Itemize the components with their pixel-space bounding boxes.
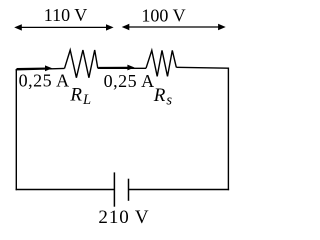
dimension arrow 110 V	[14, 24, 113, 30]
svg-text:210 V: 210 V	[98, 207, 149, 228]
wire top-left segment	[16, 68, 65, 69]
svg-text:100 V: 100 V	[141, 6, 185, 26]
resistor R_L	[65, 50, 98, 78]
svg-text:0,25 A: 0,25 A	[104, 71, 155, 91]
svg-text:0,25 A: 0,25 A	[19, 71, 70, 91]
current arrow I1	[17, 65, 53, 71]
svg-text:110 V: 110 V	[44, 5, 88, 25]
svg-text:Rs: Rs	[153, 85, 173, 109]
current arrow I2	[99, 65, 135, 71]
dimension arrow 100 V	[122, 24, 226, 30]
wire middle segment	[98, 67, 146, 69]
wire top-right segment	[176, 66, 228, 69]
wire left side	[15, 69, 17, 190]
resistor R_s	[146, 50, 176, 76]
wire bottom-left segment	[16, 189, 115, 191]
wire right side	[227, 68, 229, 191]
svg-text:RL: RL	[69, 85, 91, 109]
wire bottom-right segment	[129, 189, 230, 191]
battery cell: short plate	[128, 179, 130, 201]
battery cell: long plate	[113, 172, 115, 206]
